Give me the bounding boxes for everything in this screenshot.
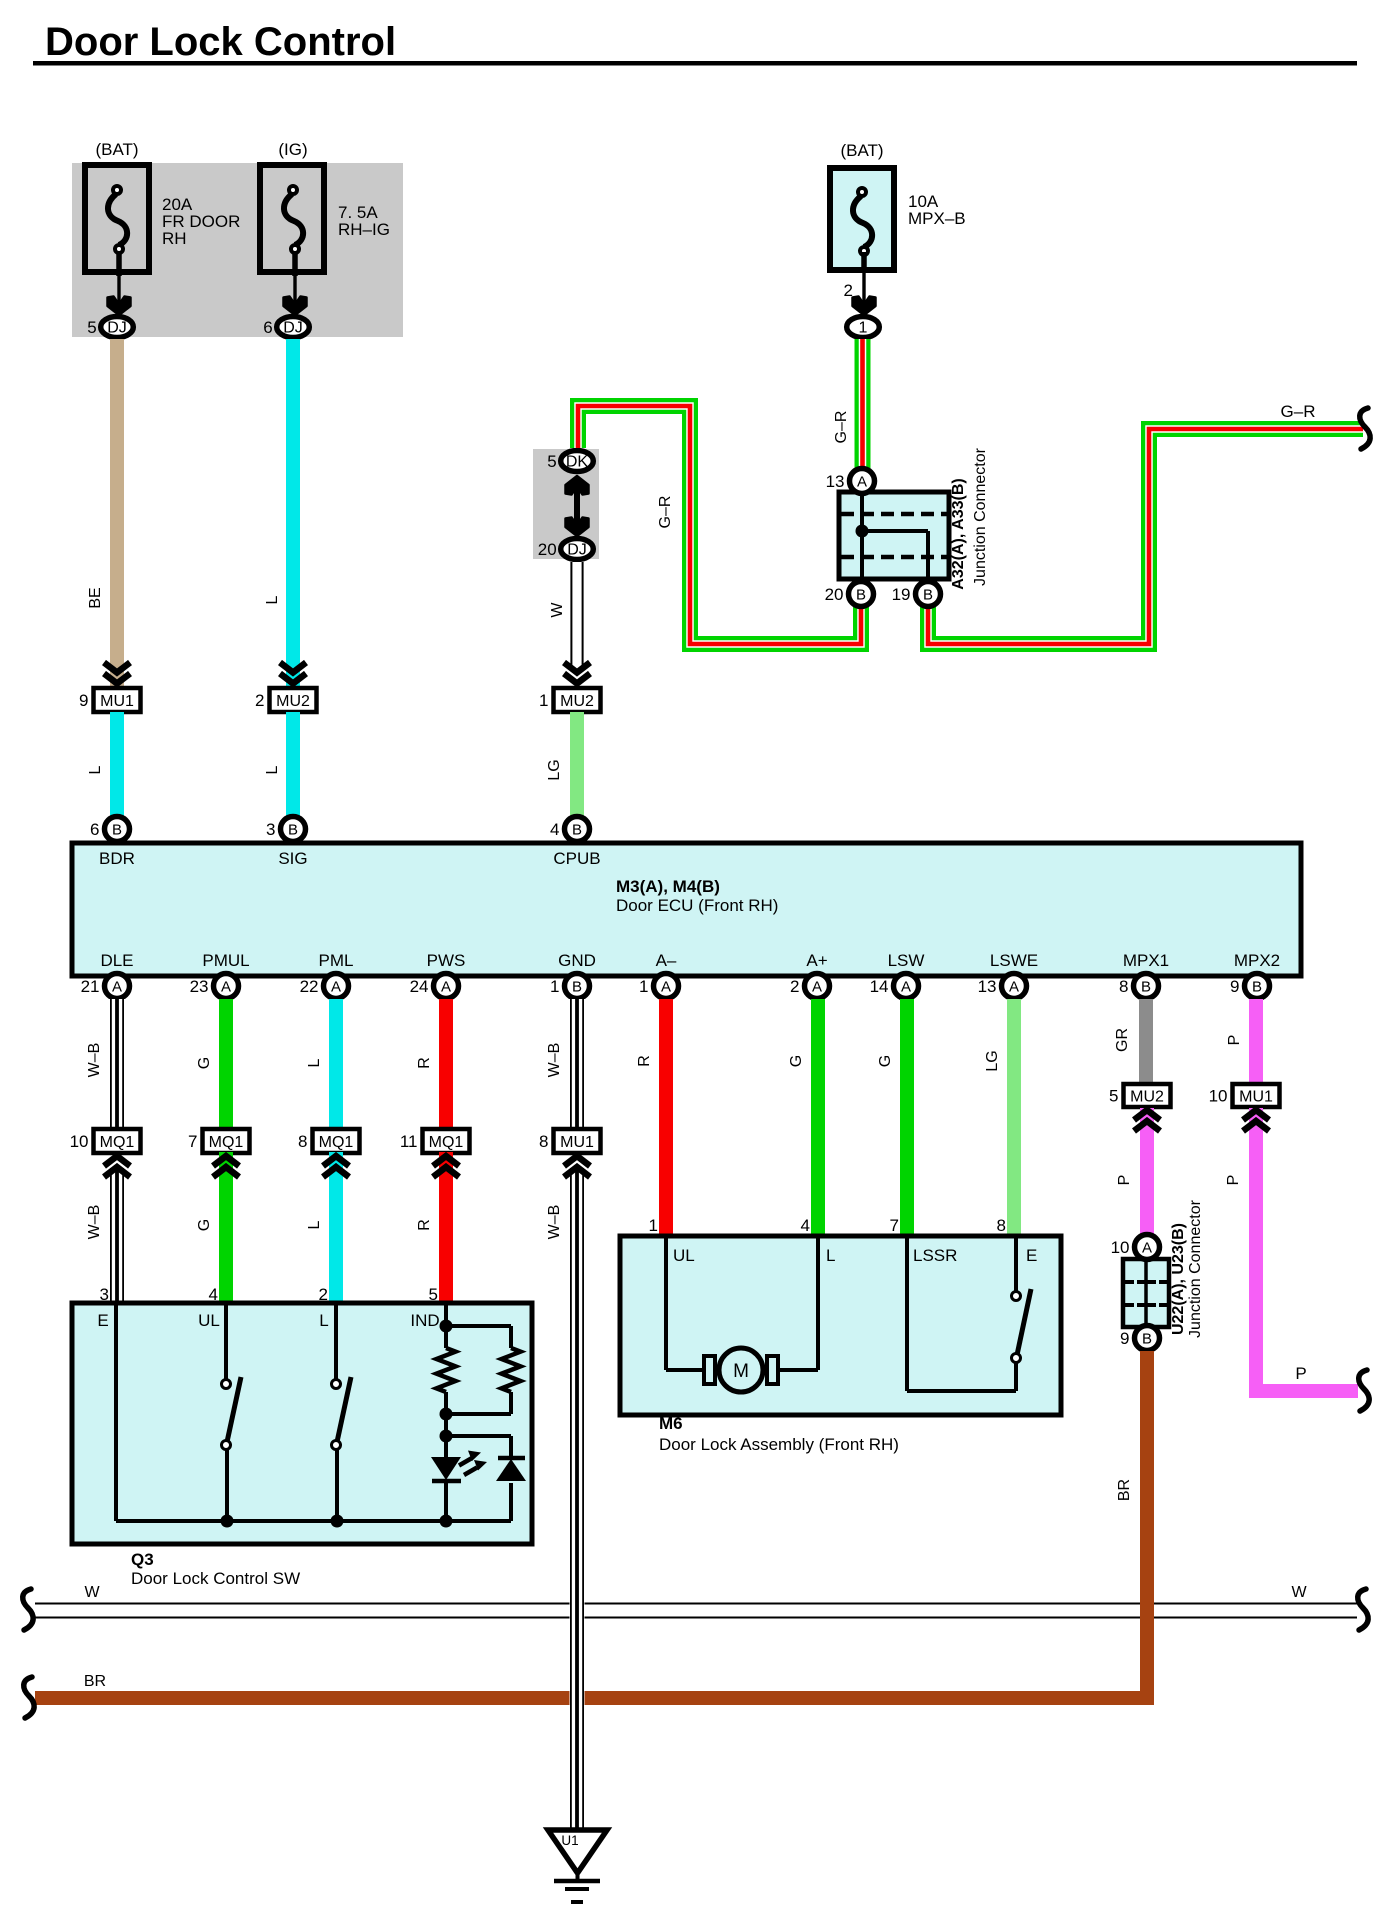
svg-text:MQ1: MQ1 [100, 1134, 135, 1151]
svg-text:7: 7 [188, 1132, 197, 1151]
pin 13 A of A32 [850, 469, 875, 494]
svg-text:A: A [1142, 1240, 1152, 1257]
svg-text:W: W [84, 1584, 100, 1601]
svg-text:B: B [923, 587, 933, 604]
svg-text:BR: BR [1116, 1479, 1133, 1501]
pin 19 B of A32 [916, 582, 941, 607]
svg-text:W–B: W–B [546, 1043, 563, 1078]
wire L from ECU PML to 8 MQ1 [329, 999, 343, 1131]
svg-text:MU2: MU2 [560, 693, 594, 710]
wire G from ECU PMUL to 7 MQ1 [219, 999, 233, 1131]
svg-text:LG: LG [546, 759, 563, 780]
svg-text:5: 5 [87, 318, 96, 337]
ECU pin 4 B CPUB [565, 817, 590, 842]
svg-text:21: 21 [81, 977, 100, 996]
LED indicator in Q3 [431, 1457, 461, 1480]
ground U1 [548, 1830, 607, 1873]
svg-text:9: 9 [1120, 1329, 1129, 1348]
svg-text:6: 6 [90, 820, 99, 839]
svg-text:MU1: MU1 [1239, 1089, 1273, 1106]
svg-text:W–B: W–B [86, 1043, 103, 1078]
svg-text:14: 14 [870, 977, 889, 996]
wire break G-R right [1360, 408, 1370, 449]
svg-text:IND: IND [410, 1311, 439, 1330]
svg-text:A32(A), A33(B): A32(A), A33(B) [950, 478, 967, 589]
svg-text:MU2: MU2 [1130, 1089, 1164, 1106]
connector 10 MQ1 arrow [104, 1156, 130, 1166]
wire W shield pair bottom [35, 1603, 1357, 1605]
svg-text:L: L [87, 765, 104, 774]
svg-text:B: B [856, 587, 866, 604]
svg-text:DJ: DJ [107, 320, 127, 337]
svg-text:20: 20 [538, 540, 557, 559]
connector 8 MU1 [554, 1129, 601, 1153]
svg-text:R: R [636, 1055, 653, 1067]
svg-text:(BAT): (BAT) [840, 141, 883, 160]
svg-text:G–R: G–R [657, 496, 674, 529]
wire G from ECU A+ to M6 pin 4 [811, 999, 825, 1236]
connector 5 DK [561, 451, 594, 472]
svg-text:PMUL: PMUL [202, 951, 249, 970]
svg-text:B: B [1252, 979, 1262, 996]
protection diode in Q3 [498, 1456, 525, 1461]
wire G-R loop from DK to junction A32 pin 20 [578, 406, 861, 644]
svg-text:W: W [1291, 1584, 1307, 1601]
svg-text:P: P [1116, 1175, 1133, 1186]
svg-text:B: B [288, 822, 298, 839]
svg-text:A+: A+ [806, 951, 827, 970]
wire L from 6 DJ to 2 MU2 [286, 339, 300, 689]
pin 10 A of U22 [1135, 1235, 1160, 1260]
svg-text:L: L [306, 1058, 323, 1067]
connector 6 DJ [277, 317, 310, 338]
svg-text:A: A [901, 979, 911, 996]
svg-text:L: L [319, 1311, 328, 1330]
svg-text:MQ1: MQ1 [319, 1134, 354, 1151]
svg-text:UL: UL [673, 1246, 695, 1265]
svg-text:LSWE: LSWE [990, 951, 1038, 970]
svg-text:B: B [112, 822, 122, 839]
svg-text:G–R: G–R [1281, 402, 1316, 421]
svg-text:A–: A– [656, 951, 677, 970]
connector 11 MQ1 [423, 1129, 470, 1153]
svg-text:9: 9 [79, 691, 88, 710]
svg-text:1: 1 [859, 320, 868, 337]
svg-text:B: B [1141, 979, 1151, 996]
svg-text:P: P [1226, 1035, 1243, 1046]
wire break W right [1358, 1589, 1368, 1630]
svg-text:MPX–B: MPX–B [908, 209, 966, 228]
svg-text:MU2: MU2 [276, 693, 310, 710]
ECU pin 6 B BDR [105, 817, 130, 842]
M6 Door Lock Assembly (Front RH) [620, 1236, 1061, 1415]
svg-text:13: 13 [826, 472, 845, 491]
svg-text:A: A [221, 979, 231, 996]
svg-text:GR: GR [1114, 1028, 1131, 1052]
connector 10 MU1 [1233, 1084, 1280, 1107]
unlock switch in Q3 [224, 1305, 228, 1380]
wire R from ECU A- to M6 pin 1 [659, 999, 673, 1236]
svg-text:L: L [264, 765, 281, 774]
svg-text:2: 2 [255, 691, 264, 710]
connector 8 MQ1 arrow [323, 1156, 349, 1166]
svg-text:8: 8 [1119, 977, 1128, 996]
svg-text:Door Lock Assembly (Front RH): Door Lock Assembly (Front RH) [659, 1435, 899, 1454]
wire P from 5 MU2 to junction U22 pin 10 A [1140, 1108, 1154, 1236]
connector 8 MU1 arrow [564, 1156, 590, 1166]
svg-text:20: 20 [825, 585, 844, 604]
lock switch in Q3 [334, 1305, 338, 1380]
svg-text:MU1: MU1 [560, 1134, 594, 1151]
svg-text:U22(A), U23(B): U22(A), U23(B) [1170, 1223, 1187, 1335]
svg-text:R: R [416, 1219, 433, 1231]
connector 7 MQ1 [203, 1129, 250, 1153]
fuse block background (driver side J/B) [72, 163, 403, 337]
wire P from 10 MU1 to right edge [1256, 1108, 1358, 1391]
svg-text:P: P [1295, 1364, 1306, 1383]
svg-text:Junction Connector: Junction Connector [972, 447, 989, 586]
svg-text:W: W [549, 602, 566, 618]
svg-text:(IG): (IG) [278, 140, 307, 159]
connector pin 1 [847, 317, 880, 338]
connector 2 MU2 [280, 663, 306, 673]
svg-text:10: 10 [1111, 1238, 1130, 1257]
svg-text:PWS: PWS [427, 951, 466, 970]
connector 10 MU1 arrow [1243, 1110, 1269, 1120]
connector 11 MQ1 arrow [433, 1156, 459, 1166]
svg-text:MPX2: MPX2 [1234, 951, 1280, 970]
svg-text:G: G [196, 1219, 213, 1231]
connector 7 MQ1 arrow [213, 1156, 239, 1166]
wire W-B from 8 MU1 to ground U1 [570, 1168, 585, 1828]
wire G-R from junction A32 pin 19 to right edge [928, 429, 1363, 644]
junction connector U22(A), U23(B) [1123, 1259, 1169, 1327]
svg-text:G: G [788, 1055, 805, 1067]
svg-text:10: 10 [70, 1132, 89, 1151]
svg-text:G: G [877, 1055, 894, 1067]
svg-text:1: 1 [550, 977, 559, 996]
svg-text:E: E [1026, 1246, 1037, 1265]
wire break BR left [24, 1677, 34, 1718]
svg-text:Door ECU (Front RH): Door ECU (Front RH) [616, 896, 778, 915]
svg-text:A: A [331, 979, 341, 996]
pin 20 B of A32 [849, 582, 874, 607]
svg-text:L: L [826, 1246, 835, 1265]
Q3 Door Lock Control SW [72, 1303, 532, 1544]
svg-text:LSSR: LSSR [913, 1246, 957, 1265]
ECU pin 3 B SIG [281, 817, 306, 842]
svg-text:4: 4 [550, 820, 559, 839]
svg-text:A: A [857, 474, 867, 491]
pin 9 B of U22 [1135, 1326, 1160, 1351]
svg-text:A: A [661, 979, 671, 996]
svg-text:L: L [306, 1220, 323, 1229]
svg-text:M3(A), M4(B): M3(A), M4(B) [616, 877, 720, 896]
svg-text:RH: RH [162, 229, 187, 248]
wire L from 9 MU1 to ECU BDR [110, 712, 124, 817]
Q3 ground bus [114, 1305, 118, 1521]
svg-text:8: 8 [298, 1132, 307, 1151]
wire break W left [23, 1589, 33, 1630]
svg-text:1: 1 [649, 1216, 658, 1235]
svg-text:E: E [97, 1311, 108, 1330]
motor M in M6 [664, 1238, 668, 1370]
connector 5 DJ [101, 317, 134, 338]
svg-text:A: A [812, 979, 822, 996]
connector 20 DJ [561, 539, 594, 560]
junction node inside A32 [856, 525, 869, 538]
svg-text:2: 2 [790, 977, 799, 996]
wire W from 20 DJ to 1 MU2 [570, 562, 585, 666]
wire P from ECU MPX2 to 10 MU1 [1249, 999, 1263, 1084]
svg-text:RH–IG: RH–IG [338, 220, 390, 239]
svg-text:BE: BE [87, 587, 104, 608]
svg-text:23: 23 [190, 977, 209, 996]
svg-text:1: 1 [639, 977, 648, 996]
connector 8 MQ1 [313, 1129, 360, 1153]
wire GR from ECU MPX1 to 5 MU2 [1139, 999, 1153, 1084]
svg-text:22: 22 [300, 977, 319, 996]
svg-text:Q3: Q3 [131, 1550, 154, 1569]
svg-text:5: 5 [547, 452, 556, 471]
wire W-B from ECU DLE to 10 MQ1 [110, 999, 125, 1131]
wire BE from 5 DJ to 9 MU1 [110, 339, 124, 689]
junction connector A32(A), A33(B) [839, 492, 949, 579]
svg-text:U1: U1 [561, 1833, 578, 1848]
svg-text:CPUB: CPUB [553, 849, 600, 868]
connector 10 MQ1 [94, 1129, 141, 1153]
IND resistor network in Q3 [444, 1305, 448, 1348]
svg-text:13: 13 [978, 977, 997, 996]
double arrow between DK and DJ [574, 478, 580, 535]
svg-text:BR: BR [84, 1673, 106, 1690]
wire break P right [1359, 1370, 1369, 1411]
svg-text:MQ1: MQ1 [209, 1134, 244, 1151]
svg-text:M: M [733, 1361, 749, 1382]
wire R from 11 MQ1 to Q3 pin 5 [439, 1152, 453, 1303]
svg-text:G: G [196, 1057, 213, 1069]
wire G from ECU LSW to M6 pin 7 [900, 999, 914, 1236]
svg-text:Junction Connector: Junction Connector [1187, 1199, 1204, 1338]
svg-text:11: 11 [400, 1132, 418, 1151]
svg-text:3: 3 [266, 820, 275, 839]
svg-text:BDR: BDR [99, 849, 135, 868]
wire LG from ECU LSWE to M6 pin 8 [1007, 999, 1021, 1236]
ECU M3(A), M4(B) Door ECU (Front RH) [72, 843, 1301, 976]
svg-text:P: P [1225, 1175, 1242, 1186]
wire L from 2 MU2 to ECU SIG [286, 712, 300, 817]
svg-text:MQ1: MQ1 [429, 1134, 464, 1151]
svg-text:B: B [572, 822, 582, 839]
svg-text:W–B: W–B [546, 1205, 563, 1240]
svg-text:(BAT): (BAT) [95, 140, 138, 159]
svg-text:R: R [416, 1057, 433, 1069]
wire G from 7 MQ1 to Q3 pin 4 [219, 1152, 233, 1303]
svg-text:7: 7 [890, 1216, 899, 1235]
svg-text:6: 6 [263, 318, 272, 337]
svg-text:A: A [1009, 979, 1019, 996]
connector 1 MU2 [564, 663, 590, 673]
svg-text:A: A [112, 979, 122, 996]
svg-text:DJ: DJ [283, 320, 303, 337]
wire W-B from ECU GND to 8 MU1 [570, 999, 585, 1131]
svg-text:PML: PML [319, 951, 354, 970]
svg-text:8: 8 [997, 1216, 1006, 1235]
svg-text:24: 24 [410, 977, 429, 996]
wire G-R from fuse 1 to junction A 13 [855, 339, 871, 468]
svg-text:SIG: SIG [278, 849, 307, 868]
svg-text:GND: GND [558, 951, 596, 970]
svg-text:MU1: MU1 [100, 693, 134, 710]
svg-text:G–R: G–R [833, 411, 850, 444]
svg-text:UL: UL [198, 1311, 220, 1330]
svg-text:10: 10 [1209, 1087, 1228, 1106]
svg-text:9: 9 [1230, 977, 1239, 996]
svg-text:M6: M6 [659, 1414, 683, 1433]
svg-text:L: L [264, 595, 281, 604]
svg-text:Door Lock Control SW: Door Lock Control SW [131, 1569, 300, 1588]
svg-text:LSW: LSW [888, 951, 925, 970]
svg-text:Door Lock Control: Door Lock Control [45, 20, 396, 64]
wire LG from 1 MU2 to ECU CPUB [570, 712, 584, 817]
wire BR from U22 pin 9 B to left edge [35, 1351, 1147, 1698]
svg-text:DJ: DJ [567, 542, 587, 559]
svg-text:DLE: DLE [100, 951, 133, 970]
svg-text:4: 4 [801, 1216, 810, 1235]
svg-text:B: B [1142, 1331, 1152, 1348]
connector 5 MU2 arrow [1134, 1110, 1160, 1120]
svg-text:DK: DK [566, 454, 589, 471]
svg-text:8: 8 [539, 1132, 548, 1151]
svg-text:19: 19 [892, 585, 911, 604]
wire R from ECU PWS to 11 MQ1 [439, 999, 453, 1131]
svg-text:1: 1 [539, 691, 548, 710]
svg-text:A: A [441, 979, 451, 996]
svg-text:MPX1: MPX1 [1123, 951, 1169, 970]
door lock position switch in M6 [905, 1238, 909, 1391]
svg-text:LG: LG [984, 1050, 1001, 1071]
junction connector block DK/DJ [533, 449, 599, 559]
connector 5 MU2 [1124, 1084, 1171, 1107]
svg-text:B: B [572, 979, 582, 996]
connector 9 MU1 [104, 663, 130, 673]
svg-text:5: 5 [1109, 1087, 1118, 1106]
wire L from 8 MQ1 to Q3 pin 2 [329, 1152, 343, 1303]
wire W-B from 10 MQ1 to Q3 pin 3 [110, 1168, 125, 1303]
svg-text:W–B: W–B [86, 1205, 103, 1240]
